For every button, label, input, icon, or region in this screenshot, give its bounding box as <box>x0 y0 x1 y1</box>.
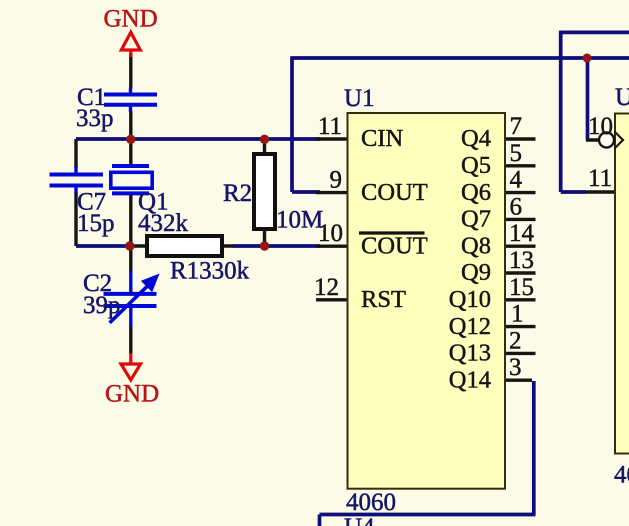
svg-text:Q4: Q4 <box>461 125 491 152</box>
svg-text:CIN: CIN <box>361 125 404 152</box>
svg-text:Q9: Q9 <box>461 259 491 286</box>
svg-text:U2: U2 <box>615 84 629 111</box>
svg-text:4060: 4060 <box>614 462 629 489</box>
svg-text:11: 11 <box>318 113 342 140</box>
svg-text:RST: RST <box>361 286 406 313</box>
svg-text:R2: R2 <box>223 180 252 207</box>
svg-text:39p: 39p <box>83 292 121 319</box>
svg-text:6: 6 <box>510 193 523 220</box>
svg-text:14: 14 <box>509 220 535 247</box>
svg-text:U1: U1 <box>344 85 375 112</box>
svg-text:12: 12 <box>314 274 339 301</box>
svg-text:7: 7 <box>510 113 523 140</box>
svg-text:5: 5 <box>510 140 523 167</box>
svg-text:10M: 10M <box>276 207 323 234</box>
svg-text:R1330k: R1330k <box>170 258 250 285</box>
svg-text:U4: U4 <box>344 514 375 526</box>
svg-text:15p: 15p <box>77 210 115 237</box>
svg-text:Q13: Q13 <box>449 340 491 367</box>
svg-text:9: 9 <box>330 167 343 194</box>
svg-text:Q6: Q6 <box>461 179 491 206</box>
svg-text:2: 2 <box>509 327 522 354</box>
svg-text:432k: 432k <box>138 210 189 237</box>
svg-text:GND: GND <box>105 381 159 408</box>
svg-text:COUT: COUT <box>361 179 428 206</box>
svg-text:GND: GND <box>104 6 158 33</box>
svg-text:Q14: Q14 <box>449 366 491 393</box>
svg-text:Q5: Q5 <box>461 152 491 179</box>
svg-text:4060: 4060 <box>346 489 396 516</box>
svg-text:33p: 33p <box>76 105 114 132</box>
svg-text:COUT: COUT <box>361 232 428 259</box>
svg-text:10: 10 <box>588 113 613 140</box>
svg-text:4: 4 <box>510 167 523 194</box>
svg-text:Q8: Q8 <box>461 232 491 259</box>
svg-text:1: 1 <box>511 301 524 328</box>
svg-text:Q12: Q12 <box>449 313 491 340</box>
svg-text:13: 13 <box>509 247 534 274</box>
svg-text:10: 10 <box>318 220 343 247</box>
svg-text:Q10: Q10 <box>449 286 491 313</box>
svg-text:3: 3 <box>509 354 522 381</box>
svg-text:11: 11 <box>588 165 612 192</box>
svg-text:15: 15 <box>509 274 534 301</box>
svg-text:Q7: Q7 <box>461 206 491 233</box>
